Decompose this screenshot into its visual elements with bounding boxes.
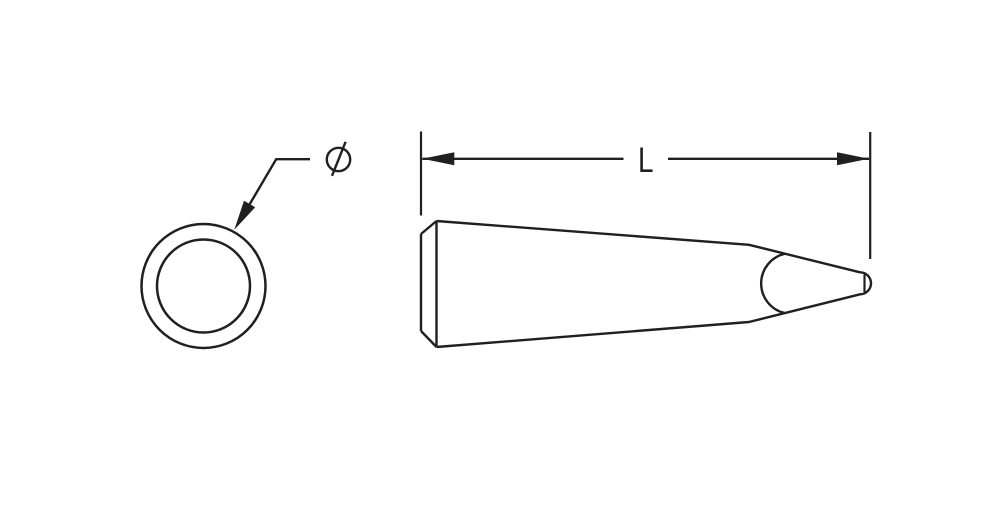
end-view inner circle [157,240,250,333]
right extension line [869,132,871,259]
tip end cap edge [863,275,865,293]
end-view outer circle [142,224,266,348]
diameter symbol slash [332,142,346,176]
tip rear chamfer top [421,221,437,234]
tip body outline [437,221,872,347]
diameter symbol circle [327,148,350,171]
left extension line [420,132,422,216]
tip rear face edge [420,234,422,331]
cone tangency arc [761,254,785,313]
svg-text:L: L [638,140,654,180]
diameter leader arrowhead [234,201,255,230]
left dimension arrowhead [422,152,454,165]
tip shank front edge [435,221,437,347]
dimension line left segment [422,158,623,160]
dimension line right segment [668,158,869,160]
tip rear chamfer bottom [421,331,437,347]
diameter leader line [238,159,310,224]
right dimension arrowhead [837,152,869,165]
